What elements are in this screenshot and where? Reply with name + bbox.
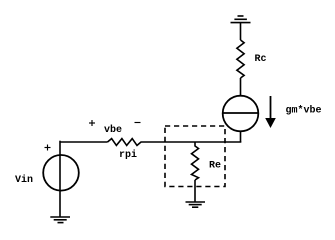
node wire (main horizontal) (60, 141, 108, 143)
svg-text:Vin: Vin (15, 174, 33, 186)
current source G1 (gm*vbe) (222, 96, 259, 132)
wire rpi to current source node (144, 141, 241, 143)
svg-text:Rc: Rc (255, 54, 267, 65)
minus sign (vbe polarity) (135, 122, 141, 124)
wire supply to Rc (240, 23, 242, 40)
svg-text:Re: Re (209, 161, 221, 172)
dashed box around Re (165, 126, 225, 187)
supply rail symbol (inverted ground) top (231, 16, 251, 23)
resistor rpi (108, 139, 145, 146)
ground under Vin (50, 217, 70, 223)
svg-text:gm*vbe: gm*vbe (286, 105, 322, 117)
ground under Re (186, 202, 206, 207)
wire Rc to current source (240, 78, 242, 95)
resistor Re (192, 142, 199, 180)
current direction arrow (265, 96, 276, 128)
plus sign (Vin polarity) (45, 145, 51, 151)
resistor Rc (237, 40, 244, 78)
svg-text:vbe: vbe (104, 124, 122, 136)
wire current source to node (240, 132, 242, 142)
wire Re to ground (194, 180, 196, 202)
source Vin circle (43, 155, 79, 191)
wire through Vin (59, 141, 61, 217)
svg-text:rpi: rpi (119, 149, 137, 161)
plus sign (vbe polarity) (89, 120, 95, 126)
